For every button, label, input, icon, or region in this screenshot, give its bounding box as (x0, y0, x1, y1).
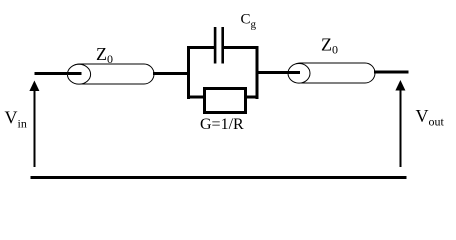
wire: shunt network to TL2 (259, 71, 302, 74)
arrow Vout shaft (400, 89, 402, 167)
transmission line TL2 body (stadium) (290, 63, 375, 83)
transmission line TL1 end ellipse (67, 64, 90, 84)
wire: input lead left segment (35, 72, 81, 75)
wire: output lead right segment (374, 71, 409, 74)
arrow Vin head (29, 81, 39, 92)
wire: top-right horizontal from capacitor (224, 46, 259, 49)
wire: TL1 to shunt network (153, 72, 190, 75)
svg-text:Vout: Vout (416, 106, 445, 129)
svg-text:G=1/R: G=1/R (200, 116, 244, 133)
svg-text:Vin: Vin (5, 108, 27, 131)
transmission line TL1 body (stadium) (69, 64, 154, 84)
capacitor C right plate (221, 27, 224, 64)
svg-text:Cg: Cg (241, 12, 257, 31)
arrow Vout head (395, 80, 405, 91)
svg-text:Z0: Z0 (96, 44, 113, 66)
resistor R box (205, 89, 246, 113)
wire: top-left horizontal to capacitor (187, 46, 215, 49)
svg-text:Z0: Z0 (321, 35, 338, 57)
wire: bottom-left horizontal to resistor (187, 96, 206, 99)
capacitor C left plate (214, 27, 217, 64)
transmission line TL2 end ellipse (288, 64, 310, 84)
wire: lead into TL1 ellipse center (68, 72, 82, 75)
ground rail (bottom) (31, 176, 407, 179)
wire: lead into TL2 ellipse center (288, 71, 300, 74)
node: shunt network left vertical (187, 46, 190, 99)
wire: bottom-right horizontal from resistor (244, 96, 259, 99)
node: shunt network right vertical (256, 46, 259, 99)
arrow Vin shaft (34, 89, 36, 167)
